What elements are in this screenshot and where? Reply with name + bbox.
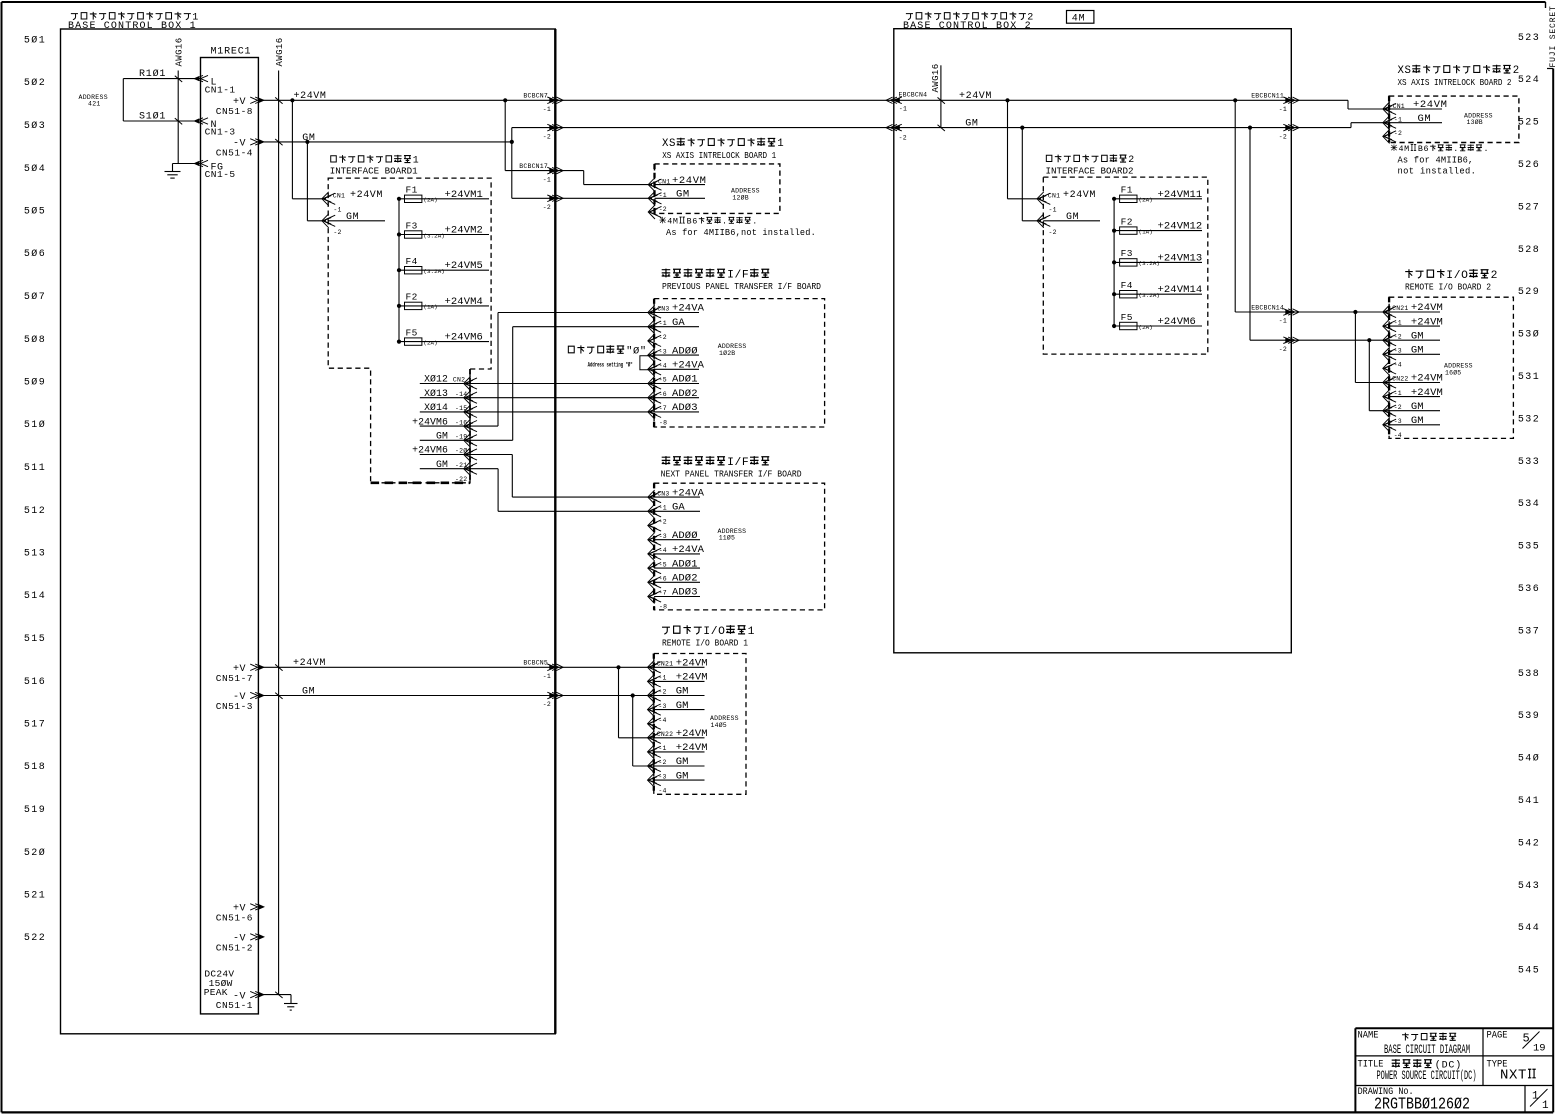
svg-text:S1Ø1: S1Ø1 (139, 111, 166, 123)
svg-text:14Ø5: 14Ø5 (711, 721, 727, 729)
svg-text:-8: -8 (659, 603, 667, 610)
svg-text:F2: F2 (1121, 216, 1133, 227)
svg-text:-1: -1 (658, 745, 666, 752)
svg-text:5Ø6: 5Ø6 (24, 248, 46, 260)
svg-text:5Ø4: 5Ø4 (24, 163, 46, 175)
svg-text:536: 536 (1518, 584, 1540, 595)
svg-text:54Ø: 54Ø (1518, 753, 1540, 765)
svg-text:-1: -1 (1394, 390, 1402, 397)
svg-text:543: 543 (1518, 881, 1540, 892)
svg-text:-1: -1 (543, 176, 551, 183)
svg-text:R1Ø1: R1Ø1 (139, 68, 166, 80)
svg-text:523: 523 (1518, 33, 1540, 44)
svg-text:-2: -2 (899, 134, 907, 141)
svg-text:CN51-4: CN51-4 (216, 148, 253, 159)
svg-text:FUJI SECRET: FUJI SECRET (1549, 5, 1556, 67)
svg-text:-1: -1 (1394, 319, 1402, 326)
svg-text:-5: -5 (659, 377, 667, 384)
svg-text:CN1: CN1 (333, 193, 345, 200)
svg-text:+24VM11: +24VM11 (1158, 189, 1203, 201)
svg-text:1: 1 (777, 138, 784, 150)
svg-text:-15: -15 (455, 405, 467, 412)
svg-text:CN51-6: CN51-6 (216, 913, 253, 924)
svg-text:XS: XS (662, 138, 676, 150)
svg-text:12ØB: 12ØB (732, 193, 748, 201)
svg-text:-22: -22 (455, 476, 467, 483)
svg-text:531: 531 (1518, 372, 1540, 383)
svg-text:-1: -1 (1049, 206, 1057, 213)
svg-text:537: 537 (1518, 626, 1540, 637)
svg-text:-14: -14 (455, 391, 467, 398)
svg-text:-2: -2 (1394, 130, 1402, 137)
svg-text:539: 539 (1518, 711, 1540, 722)
svg-text:XS AXIS INTRELOCK BOARD 1: XS AXIS INTRELOCK BOARD 1 (662, 150, 776, 161)
svg-text:-2: -2 (659, 334, 667, 341)
svg-text:526: 526 (1518, 160, 1540, 171)
svg-text:Address setting "Ø": Address setting "Ø" (588, 361, 633, 369)
svg-text:XS AXIS INTRELOCK BOARD 2: XS AXIS INTRELOCK BOARD 2 (1398, 77, 1512, 88)
svg-text:BCBCN7: BCBCN7 (523, 93, 548, 100)
svg-text:BASE CONTROL BOX 1: BASE CONTROL BOX 1 (68, 21, 197, 32)
svg-text:CN3: CN3 (657, 306, 669, 313)
svg-text:(2A): (2A) (423, 339, 437, 346)
svg-text:-3: -3 (659, 348, 667, 355)
svg-text:-2: -2 (543, 204, 551, 211)
svg-text:CN21: CN21 (1392, 305, 1408, 312)
svg-text:512: 512 (24, 506, 46, 517)
svg-text:BASE CONTROL BOX 2: BASE CONTROL BOX 2 (903, 21, 1032, 32)
svg-text:I/F: I/F (727, 457, 749, 469)
svg-text:B6: B6 (687, 216, 698, 226)
svg-text:I/F: I/F (727, 269, 749, 281)
svg-text:(1A): (1A) (1139, 228, 1153, 235)
svg-text:I/O: I/O (1446, 270, 1468, 282)
svg-text:519: 519 (24, 805, 46, 816)
svg-text:525: 525 (1518, 118, 1540, 129)
svg-text:.: . (722, 216, 728, 226)
svg-text:F2: F2 (406, 292, 418, 303)
svg-text:GM: GM (436, 459, 448, 470)
svg-text:4M: 4M (1399, 144, 1410, 154)
svg-text:CN1: CN1 (1048, 193, 1060, 200)
svg-text:2RGTBBØ126Ø2: 2RGTBBØ126Ø2 (1374, 1095, 1470, 1114)
svg-text:XØ13: XØ13 (424, 388, 448, 399)
svg-text:CN22: CN22 (657, 731, 673, 738)
svg-text:-1: -1 (1279, 106, 1287, 113)
svg-text:EBCBCN11: EBCBCN11 (1251, 93, 1284, 100)
svg-text:BASE CIRCUIT DIAGRAM: BASE CIRCUIT DIAGRAM (1384, 1043, 1470, 1057)
svg-text:F1: F1 (406, 185, 418, 196)
svg-text:-1: -1 (1279, 318, 1287, 325)
svg-text:513: 513 (24, 549, 46, 560)
svg-text:532: 532 (1518, 414, 1540, 425)
svg-text:-2: -2 (543, 133, 551, 140)
svg-text:13ØB: 13ØB (1467, 118, 1483, 126)
svg-text:5Ø2: 5Ø2 (24, 77, 46, 89)
svg-text:+24VM12: +24VM12 (1158, 221, 1203, 233)
svg-text:CN51-2: CN51-2 (216, 943, 253, 954)
svg-text:-4: -4 (659, 547, 667, 554)
svg-text:-3: -3 (1394, 348, 1402, 355)
svg-text:5Ø8: 5Ø8 (24, 334, 46, 346)
svg-text:527: 527 (1518, 202, 1540, 213)
svg-text:-2: -2 (1049, 229, 1057, 236)
svg-text:-1: -1 (899, 105, 907, 112)
svg-text:544: 544 (1518, 923, 1540, 934)
svg-text:BCBCN17: BCBCN17 (519, 163, 548, 170)
svg-text:BCBCN5: BCBCN5 (523, 660, 548, 667)
svg-text:CN22: CN22 (1392, 376, 1408, 383)
svg-text:-5: -5 (659, 561, 667, 568)
svg-text:2: 2 (1491, 270, 1498, 282)
svg-text:+24VM6: +24VM6 (445, 332, 483, 344)
svg-text:EBCBCN4: EBCBCN4 (899, 91, 928, 98)
svg-text:AWG16: AWG16 (931, 63, 941, 92)
svg-text:not installed.: not installed. (1398, 167, 1477, 177)
svg-text:514: 514 (24, 591, 46, 602)
svg-text:-4: -4 (659, 363, 667, 370)
svg-text:-2: -2 (333, 229, 341, 236)
svg-text:+24VM2: +24VM2 (445, 225, 483, 237)
svg-text:4M: 4M (667, 216, 678, 226)
svg-text:-2: -2 (659, 206, 667, 213)
svg-text:-1: -1 (543, 106, 551, 113)
svg-text:.: . (752, 216, 758, 226)
svg-text:CN51-7: CN51-7 (216, 673, 253, 684)
svg-text:+24VM: +24VM (959, 91, 992, 102)
svg-text:-2: -2 (1279, 346, 1287, 353)
svg-text:-2: -2 (1279, 133, 1287, 140)
svg-text:(3.2A): (3.2A) (423, 268, 444, 275)
svg-text:542: 542 (1518, 838, 1540, 849)
svg-text:REMOTE I/O BOARD 1: REMOTE I/O BOARD 1 (662, 637, 748, 648)
svg-text:534: 534 (1518, 499, 1540, 510)
svg-text:F1: F1 (1121, 185, 1133, 196)
svg-text:545: 545 (1518, 966, 1540, 977)
svg-text:-3: -3 (658, 773, 666, 780)
svg-text:-6: -6 (659, 576, 667, 583)
svg-text:1: 1 (1542, 1100, 1549, 1112)
svg-text:GM: GM (302, 686, 315, 697)
svg-text:F5: F5 (1121, 312, 1133, 323)
svg-text:516: 516 (24, 677, 46, 688)
svg-text:-16: -16 (455, 419, 467, 426)
svg-text:-2: -2 (658, 689, 666, 696)
svg-text:AWG16: AWG16 (175, 37, 185, 66)
svg-text:(2A): (2A) (1139, 197, 1153, 204)
svg-text:CN1-1: CN1-1 (205, 84, 236, 95)
svg-text:518: 518 (24, 762, 46, 773)
svg-text:F5: F5 (406, 327, 418, 338)
svg-text:-1: -1 (659, 505, 667, 512)
svg-text:CN2: CN2 (453, 377, 465, 384)
svg-text:As for 4MIIB6,: As for 4MIIB6, (1398, 155, 1474, 165)
svg-text:-19: -19 (455, 434, 467, 441)
svg-text:POWER SOURCE CIRCUIT(DC): POWER SOURCE CIRCUIT(DC) (1377, 1069, 1477, 1083)
svg-text:(1A): (1A) (423, 304, 437, 311)
svg-text:CN51-1: CN51-1 (216, 1000, 253, 1011)
svg-text:I/O: I/O (703, 626, 725, 638)
svg-text:521: 521 (24, 891, 46, 902)
svg-text:+24VM14: +24VM14 (1158, 284, 1203, 296)
svg-text:XØ12: XØ12 (424, 374, 448, 385)
svg-text:F3: F3 (1121, 248, 1133, 259)
svg-text:.: . (1484, 144, 1490, 154)
svg-text:5Ø7: 5Ø7 (24, 291, 46, 303)
svg-text:-7: -7 (659, 590, 667, 597)
svg-text:+24VM13: +24VM13 (1158, 252, 1203, 264)
svg-text:NAME: NAME (1358, 1029, 1379, 1041)
svg-text:(2A): (2A) (423, 197, 437, 204)
svg-text:B6: B6 (1418, 144, 1429, 154)
svg-text:+24VM5: +24VM5 (445, 260, 483, 272)
svg-text:+24VM6: +24VM6 (1158, 316, 1196, 328)
svg-text:522: 522 (24, 933, 46, 944)
svg-text:.: . (1453, 144, 1459, 154)
svg-text:1: 1 (413, 155, 420, 166)
svg-text:+24VM: +24VM (1063, 190, 1096, 201)
svg-text:F4: F4 (406, 256, 418, 267)
svg-text:-2: -2 (659, 519, 667, 526)
svg-text:CN51-8: CN51-8 (216, 106, 253, 117)
svg-text:515: 515 (24, 634, 46, 645)
svg-text:CN1-3: CN1-3 (205, 127, 236, 138)
svg-text:535: 535 (1518, 542, 1540, 553)
svg-text:+24VM: +24VM (294, 91, 327, 102)
svg-text:REMOTE I/O BOARD 2: REMOTE I/O BOARD 2 (1405, 281, 1491, 292)
svg-text:-1: -1 (658, 675, 666, 682)
svg-text:541: 541 (1518, 796, 1540, 807)
svg-text:511: 511 (24, 463, 46, 474)
svg-text:421: 421 (88, 101, 101, 108)
svg-text:+24VM4: +24VM4 (445, 296, 483, 308)
svg-text:F4: F4 (1121, 280, 1133, 291)
svg-text:533: 533 (1518, 457, 1540, 468)
svg-text:PEAK: PEAK (204, 987, 228, 998)
svg-text:NXT: NXT (1500, 1068, 1527, 1084)
svg-text:19: 19 (1533, 1043, 1546, 1055)
svg-text:As for 4MIIB6,not installed.: As for 4MIIB6,not installed. (666, 228, 816, 238)
svg-text:2: 2 (1128, 154, 1135, 165)
svg-text:-3: -3 (658, 703, 666, 710)
svg-text:-4: -4 (658, 717, 666, 724)
svg-text:+24VM: +24VM (350, 190, 383, 201)
svg-text:4M: 4M (1072, 14, 1086, 25)
svg-text:-2: -2 (1394, 404, 1402, 411)
svg-text:52Ø: 52Ø (24, 847, 46, 859)
svg-text:5Ø3: 5Ø3 (24, 120, 46, 132)
svg-text:XØ14: XØ14 (424, 402, 448, 413)
svg-text:-7: -7 (659, 405, 667, 412)
svg-text:51Ø: 51Ø (24, 419, 46, 431)
svg-text:1Ø2B: 1Ø2B (719, 349, 735, 357)
svg-text:CN51-3: CN51-3 (216, 701, 253, 712)
svg-text:16Ø5: 16Ø5 (1445, 368, 1461, 376)
svg-text:-2: -2 (658, 759, 666, 766)
svg-text:INTERFACE BOARD2: INTERFACE BOARD2 (1046, 165, 1134, 176)
svg-text:GM: GM (436, 431, 448, 442)
svg-text:INTERFACE BOARD1: INTERFACE BOARD1 (330, 166, 418, 177)
svg-text:5: 5 (1523, 1032, 1530, 1046)
svg-text:-8: -8 (659, 419, 667, 426)
svg-text:F3: F3 (406, 220, 418, 231)
svg-text:5Ø1: 5Ø1 (24, 35, 46, 47)
svg-text:53Ø: 53Ø (1518, 329, 1540, 341)
svg-text:528: 528 (1518, 245, 1540, 256)
svg-text:CN21: CN21 (657, 661, 673, 668)
svg-text:PREVIOUS PANEL TRANSFER I/F BO: PREVIOUS PANEL TRANSFER I/F BOARD (662, 281, 821, 292)
svg-text:5Ø9: 5Ø9 (24, 377, 46, 389)
svg-text:-1: -1 (333, 206, 341, 213)
svg-text:"Ø": "Ø" (626, 345, 647, 357)
svg-text:11Ø5: 11Ø5 (719, 534, 735, 542)
svg-text:529: 529 (1518, 287, 1540, 298)
svg-text:-3: -3 (1394, 418, 1402, 425)
svg-text:CN1-5: CN1-5 (205, 169, 236, 180)
svg-text:1: 1 (748, 626, 755, 638)
svg-text:CN3: CN3 (657, 490, 669, 497)
svg-text:-1: -1 (543, 673, 551, 680)
svg-text:+24VM6: +24VM6 (412, 445, 448, 456)
svg-text:NEXT PANEL TRANSFER I/F BOARD: NEXT PANEL TRANSFER I/F BOARD (661, 468, 802, 479)
svg-text:5Ø5: 5Ø5 (24, 206, 46, 218)
svg-text:-2: -2 (1394, 333, 1402, 340)
svg-text:524: 524 (1518, 75, 1540, 86)
svg-text:+24VM: +24VM (293, 658, 326, 669)
svg-text:XS: XS (1398, 65, 1412, 77)
svg-text:-4: -4 (658, 787, 666, 794)
svg-text:-4: -4 (1394, 432, 1402, 439)
svg-text:+24VM6: +24VM6 (412, 416, 448, 427)
svg-text:+24VM1: +24VM1 (445, 189, 483, 201)
svg-text:538: 538 (1518, 669, 1540, 680)
svg-text:-4: -4 (1394, 362, 1402, 369)
svg-text:-6: -6 (659, 391, 667, 398)
svg-text:-3: -3 (659, 533, 667, 540)
svg-text:(3.2A): (3.2A) (423, 232, 444, 239)
svg-text:-1: -1 (659, 320, 667, 327)
svg-text:AWG16: AWG16 (275, 37, 285, 66)
svg-text:M1REC1: M1REC1 (211, 47, 252, 58)
svg-text:517: 517 (24, 720, 46, 731)
svg-text:-2: -2 (543, 701, 551, 708)
svg-text:GM: GM (965, 119, 978, 130)
svg-text:PAGE: PAGE (1487, 1029, 1508, 1041)
svg-text:-21: -21 (455, 462, 467, 469)
svg-text:(2A): (2A) (1139, 324, 1153, 331)
svg-text:EBCBCN14: EBCBCN14 (1251, 304, 1284, 311)
svg-text:2: 2 (1513, 65, 1520, 77)
svg-text:-2Ø: -2Ø (455, 447, 467, 455)
